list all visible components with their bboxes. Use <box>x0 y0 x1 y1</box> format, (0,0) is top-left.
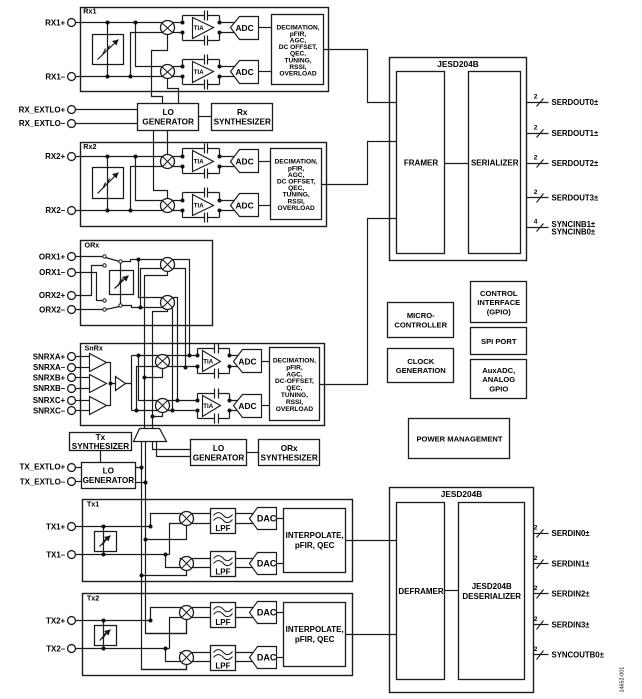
svg-text:OVERLOAD: OVERLOAD <box>276 406 314 413</box>
svg-text:2: 2 <box>534 524 538 531</box>
wire Rx1 Q TIA to ADC <box>220 67 236 77</box>
switch arm ORx upper <box>106 258 120 262</box>
wire SnRx Q ADC to decimation <box>262 405 270 407</box>
junction dots Tx1 <box>102 525 168 578</box>
svg-text:SYNCOUTB0±: SYNCOUTB0± <box>552 651 605 660</box>
amplifier SnRxB <box>90 375 107 393</box>
svg-text:DAC: DAC <box>257 608 277 618</box>
svg-text:SERDOUT1±: SERDOUT1± <box>552 129 599 138</box>
svg-text:FRAMER: FRAMER <box>404 159 438 168</box>
input SERDIN3 <box>534 616 591 630</box>
attenuator Rx2 <box>93 168 124 199</box>
svg-text:DESERIALIZER: DESERIALIZER <box>462 592 521 601</box>
svg-text:Tx: Tx <box>96 433 106 442</box>
mixer ORx Q <box>161 296 175 310</box>
wire ORx I mixer LO rail A <box>145 272 168 429</box>
deserializer block <box>459 503 525 680</box>
wire Rx1 attenuator shunt <box>107 23 109 77</box>
pin RX1+ <box>68 19 76 27</box>
serializer block <box>469 72 521 254</box>
wire Tx2 interpolate to deframer <box>346 634 397 636</box>
attenuator Tx2 <box>95 626 117 646</box>
pin SNRXA+ <box>68 353 76 361</box>
svg-text:ORX2+: ORX2+ <box>39 291 66 300</box>
pin Tx1- <box>68 551 76 559</box>
svg-text:TX_EXTLO–: TX_EXTLO– <box>20 477 66 486</box>
wire Tx2 I DAC to interpolate <box>277 612 284 614</box>
pin SNRXC- <box>68 407 76 415</box>
decimation block Rx1 <box>272 15 324 85</box>
svg-text:CONTROLLER: CONTROLLER <box>394 320 447 329</box>
LO distribution splitter funnel <box>134 429 167 442</box>
low-pass filter Tx1 Q <box>211 552 236 577</box>
svg-text:RX_EXTLO+: RX_EXTLO+ <box>19 105 66 114</box>
svg-text:ADC: ADC <box>235 67 253 77</box>
pin SNRXB+ <box>68 374 76 382</box>
mixer Rx1 I <box>161 21 175 35</box>
wire Tx1 Q mixer LO drop <box>142 571 187 576</box>
svg-text:TIA: TIA <box>203 403 213 410</box>
wire ORX1+ to switch <box>76 256 103 258</box>
wire RX2- input line <box>76 210 183 212</box>
wire Tx1 Q DAC to interpolate <box>277 563 284 565</box>
clock generation block <box>388 349 454 383</box>
svg-text:ANALOG: ANALOG <box>482 375 515 384</box>
wire Tx LO rail C <box>142 442 187 670</box>
svg-text:ORX2–: ORX2– <box>39 306 66 315</box>
wire SNRXA- input <box>76 367 91 369</box>
wire Tx1 interpolate to deframer <box>346 540 397 542</box>
svg-text:Rx2: Rx2 <box>83 142 96 151</box>
pin Tx2- <box>68 645 76 653</box>
wire ORx plus line to I mixer and down to SnRx TIA1 <box>123 260 190 356</box>
pin Tx2+ <box>68 617 76 625</box>
wire ORx attenuator shunt <box>120 264 122 304</box>
decimation block SnRx <box>270 348 320 421</box>
pin ORX1- <box>68 269 76 277</box>
input SERDIN2 <box>534 585 591 599</box>
wire Rx2 Q TIA to ADC <box>220 201 236 211</box>
wire Tx2 attenuator shunt <box>103 621 105 649</box>
svg-text:INTERPOLATE,: INTERPOLATE, <box>286 531 344 540</box>
wire SnRx minus line to Q mixer <box>132 410 198 412</box>
wire Rx1 decimation to framer <box>324 50 397 103</box>
wire Tx LO rail D <box>146 442 187 634</box>
svg-text:DAC: DAC <box>257 514 277 524</box>
low-pass filter Tx2 Q <box>211 646 236 671</box>
svg-text:SYNTHESIZER: SYNTHESIZER <box>260 454 317 463</box>
svg-text:LO: LO <box>103 467 115 476</box>
svg-text:Tx2: Tx2 <box>87 593 99 602</box>
svg-text:ADC: ADC <box>235 201 253 211</box>
TIA amplifier with feedback capacitors Rx1 I <box>181 11 222 46</box>
wire Rx LO generator to Rx synthesizer <box>199 116 212 118</box>
wire TX_EXTLO- input <box>76 481 82 483</box>
Tx synthesizer <box>70 433 132 452</box>
wire ORx cross to I mixer bottom <box>141 269 186 368</box>
pin ORX2+ <box>68 292 76 300</box>
ADC Rx1 I <box>231 17 259 40</box>
block Tx1 outline <box>83 500 353 582</box>
svg-text:SPI PORT: SPI PORT <box>481 337 517 346</box>
svg-text:SERDIN0±: SERDIN0± <box>552 529 591 538</box>
switch common node ORx minus <box>119 304 122 307</box>
wire Tx2 I mixer upper path <box>151 608 211 621</box>
wire Tx2 I mixer LO drop <box>146 620 187 634</box>
wire Tx2- output line <box>76 648 170 650</box>
wire Tx1 attenuator shunt <box>103 527 105 555</box>
svg-text:SERDIN3±: SERDIN3± <box>552 621 591 630</box>
wire Tx1 I mixer upper path <box>151 514 211 527</box>
svg-text:RX2+: RX2+ <box>45 152 65 161</box>
block Rx2 outline <box>81 143 327 227</box>
amplifier SnRxC <box>90 397 107 415</box>
wire ORx Q mixer LO rail B <box>153 310 168 429</box>
block SnRx outline <box>81 344 325 426</box>
wire SnRx amp bus <box>107 363 116 406</box>
TIA amplifier with feedback capacitors Rx1 Q <box>181 55 222 90</box>
TIA amplifier with feedback capacitors SnRx Q <box>196 389 232 424</box>
wire Tx2 Q mixer LO drop <box>142 665 187 670</box>
LO generator Rx <box>138 104 199 131</box>
svg-text:SnRx: SnRx <box>85 343 103 352</box>
svg-text:2: 2 <box>534 585 538 592</box>
ADC SnRx Q <box>234 395 262 418</box>
wire ORx LO generator to ORx synthesizer <box>247 452 259 454</box>
pin ORX1+ <box>68 253 76 261</box>
SPI port block <box>471 328 527 355</box>
wire RX_EXTLO+ input <box>76 109 138 111</box>
svg-text:SYNTHESIZER: SYNTHESIZER <box>72 442 129 451</box>
svg-text:RX1+: RX1+ <box>45 19 65 28</box>
TIA amplifier with feedback capacitors Rx2 Q <box>181 188 222 223</box>
svg-text:ADC: ADC <box>235 23 253 33</box>
svg-text:Rx1: Rx1 <box>83 7 96 16</box>
svg-text:ADC: ADC <box>238 356 256 366</box>
svg-text:INTERPOLATE,: INTERPOLATE, <box>286 625 344 634</box>
svg-text:TX2–: TX2– <box>46 644 66 653</box>
pin ORX2- <box>68 306 76 314</box>
wire SNRXB- input <box>76 388 91 390</box>
input SYNCINB <box>527 218 596 236</box>
Rx synthesizer <box>212 104 273 131</box>
LO generator Tx <box>82 463 136 489</box>
svg-text:2: 2 <box>534 555 538 562</box>
svg-text:SERDOUT0±: SERDOUT0± <box>552 98 599 107</box>
svg-text:2: 2 <box>534 646 538 653</box>
wire Rx1 Q mixer LO <box>168 79 179 104</box>
svg-text:2: 2 <box>534 93 538 100</box>
wire Tx1 I mixer LO drop <box>146 526 187 540</box>
wire Tx2 I mixer lower path <box>170 618 211 649</box>
wire Rx1 Q ADC to decimation <box>259 71 272 73</box>
wire SnRx decimation to framer <box>320 219 397 385</box>
switch arm ORx lower <box>106 307 120 310</box>
junction dots SnRx split <box>135 354 141 413</box>
wire SnRx Q mixer LO tap <box>153 413 163 417</box>
wire ORX2+ to switch <box>76 266 103 296</box>
control interface GPIO block <box>471 282 527 323</box>
svg-text:2: 2 <box>534 154 538 161</box>
svg-text:(GPIO): (GPIO) <box>487 308 512 317</box>
low-pass filter Tx2 I <box>211 603 236 628</box>
wire SnRx I ADC to decimation <box>262 361 270 363</box>
svg-text:2: 2 <box>534 616 538 623</box>
svg-text:TIA: TIA <box>194 69 204 76</box>
wire Tx2+ output line <box>76 620 151 622</box>
svg-text:POWER MANAGEMENT: POWER MANAGEMENT <box>416 435 502 444</box>
DAC Tx2 I <box>250 602 277 624</box>
wire Tx2 Q mixer upper path <box>166 649 211 662</box>
pin RX2- <box>68 207 76 215</box>
junction dots Tx2 <box>102 619 168 651</box>
pin RX_EXTLO+ <box>68 106 76 114</box>
switch common node ORx plus <box>119 260 122 263</box>
deframer block <box>397 503 445 680</box>
svg-text:TIA: TIA <box>194 203 204 210</box>
mixer Tx1 Q <box>180 557 194 571</box>
mixer Tx2 Q <box>180 651 194 665</box>
svg-text:SERIALIZER: SERIALIZER <box>471 159 519 168</box>
wire Rx2 I TIA to ADC <box>220 157 236 167</box>
wire Tx1- output line <box>76 554 170 556</box>
mixer Rx1 Q <box>161 65 175 79</box>
wire Tx synthesizer to Tx LO generator <box>100 451 102 463</box>
amplifier SnRxA <box>90 354 107 372</box>
wire Tx2 Q mixer lower line <box>180 652 211 654</box>
wire SnRx combiner split <box>126 356 132 411</box>
svg-text:GENERATION: GENERATION <box>396 366 446 375</box>
switch contact ORX2+ pole <box>103 264 106 267</box>
svg-text:INTERFACE: INTERFACE <box>477 298 520 307</box>
ORx synthesizer <box>259 440 320 466</box>
wire Tx1 I LPF to DAC <box>236 514 254 524</box>
wire ORX1- to switch <box>76 273 103 301</box>
wire TX_EXTLO+ input <box>76 467 82 469</box>
svg-text:2: 2 <box>534 189 538 196</box>
wire Rx2 decimation to framer <box>322 142 397 185</box>
wire RX1- input line <box>76 76 183 78</box>
svg-text:GPIO: GPIO <box>489 385 508 394</box>
svg-text:LPF: LPF <box>215 524 230 533</box>
ADC SnRx I <box>234 350 262 373</box>
svg-text:LPF: LPF <box>215 662 230 671</box>
pin RX_EXTLO- <box>68 120 76 128</box>
wire framer to serializer <box>445 163 469 165</box>
attenuator Tx1 <box>95 532 117 552</box>
LO generator ORx <box>191 440 247 466</box>
mixer SnRx Q <box>156 399 170 413</box>
svg-text:ADC: ADC <box>238 401 256 411</box>
wire Tx1 I mixer lower path <box>170 524 211 555</box>
svg-text:pFIR, QEC: pFIR, QEC <box>295 541 335 550</box>
wire SnRx Q TIA to ADC <box>230 401 239 411</box>
TIA amplifier with feedback capacitors SnRx I <box>196 344 232 379</box>
wire Rx2 I mixer LO <box>167 131 169 155</box>
svg-text:DEFRAMER: DEFRAMER <box>398 587 444 596</box>
wire Rx2 attenuator shunt <box>107 157 109 211</box>
svg-text:DAC: DAC <box>257 653 277 663</box>
block Rx1 outline <box>81 8 329 92</box>
wire SNRXC+ input <box>76 400 91 402</box>
svg-text:SNRXA+: SNRXA+ <box>33 352 66 361</box>
mixer ORx I <box>161 258 175 272</box>
mixer Rx2 Q <box>161 199 175 213</box>
wire RX2+ input line <box>76 156 183 158</box>
pin SNRXA- <box>68 364 76 372</box>
wire SnRx I mixer LO tap <box>145 369 163 378</box>
framer block <box>397 72 445 254</box>
svg-text:LPF: LPF <box>215 618 230 627</box>
svg-text:RX1–: RX1– <box>45 73 65 82</box>
output SYNCOUTB0 <box>534 646 605 660</box>
svg-text:4: 4 <box>534 218 538 225</box>
junction dots Rx2 input network <box>106 155 138 213</box>
svg-text:TX2+: TX2+ <box>46 616 66 625</box>
wire Tx1+ output line <box>76 526 151 528</box>
junction dots Rx1 input network <box>106 21 138 79</box>
svg-text:GENERATOR: GENERATOR <box>83 476 135 485</box>
junction dots Tx LO generator taps <box>140 466 148 485</box>
micro-controller block <box>388 303 454 338</box>
svg-text:LPF: LPF <box>215 568 230 577</box>
mixer Tx1 I <box>180 512 194 526</box>
svg-text:SERDOUT2±: SERDOUT2± <box>552 159 599 168</box>
pin TX_EXTLO+ <box>68 464 76 472</box>
pin TX_EXTLO- <box>68 478 76 486</box>
svg-text:SNRXC+: SNRXC+ <box>33 396 66 405</box>
wire Tx2 Q DAC to interpolate <box>277 657 284 659</box>
wire SnRx I TIA to ADC <box>230 356 239 367</box>
output SERDOUT1 <box>527 124 599 138</box>
attenuator Rx1 <box>93 35 124 65</box>
pin Tx1+ <box>68 523 76 531</box>
interpolate block Tx1 <box>284 509 346 573</box>
pin RX1- <box>68 73 76 81</box>
block JESD204B Rx outline <box>390 58 527 261</box>
block Tx2 outline <box>83 594 353 676</box>
pin SNRXB- <box>68 385 76 393</box>
pin RX2+ <box>68 153 76 161</box>
svg-text:ORx: ORx <box>281 444 298 453</box>
wire Tx LO generator tap to rail D <box>136 482 146 484</box>
wire ORX2- to switch <box>76 309 103 311</box>
output SERDOUT3 <box>527 189 599 203</box>
svg-text:TIA: TIA <box>194 159 204 166</box>
wire deframer to deserializer <box>445 590 459 592</box>
svg-text:SYNTHESIZER: SYNTHESIZER <box>214 118 271 127</box>
ADC Rx2 Q <box>231 194 259 217</box>
svg-text:SYNCINB0±: SYNCINB0± <box>552 228 596 237</box>
svg-text:SNRXC–: SNRXC– <box>33 406 66 415</box>
svg-text:GENERATOR: GENERATOR <box>193 454 245 463</box>
wire Rx1 I TIA to ADC <box>220 23 236 33</box>
svg-text:DAC: DAC <box>257 559 277 569</box>
svg-text:OVERLOAD: OVERLOAD <box>277 205 315 212</box>
output SERDOUT0 <box>527 93 599 107</box>
switch contact ORX1- pole <box>103 299 106 302</box>
DAC Tx1 Q <box>250 553 277 575</box>
wire SnRx cross to I mixer bottom <box>137 367 198 411</box>
svg-text:TX1+: TX1+ <box>46 522 66 531</box>
svg-text:TIA: TIA <box>194 25 204 32</box>
svg-text:ORX1+: ORX1+ <box>39 253 66 262</box>
wire SNRXB+ input <box>76 377 91 379</box>
ADC Rx1 Q <box>231 61 259 84</box>
switch contact ORX1+ <box>103 255 106 258</box>
pin SNRXC+ <box>68 397 76 405</box>
wire Tx1 Q LPF to DAC <box>236 559 254 568</box>
svg-text:CLOCK: CLOCK <box>407 357 435 366</box>
svg-text:GENERATOR: GENERATOR <box>142 118 194 127</box>
DAC Tx1 I <box>250 508 277 530</box>
svg-text:SERDIN1±: SERDIN1± <box>552 560 591 569</box>
output SERDOUT2 <box>527 154 599 168</box>
svg-text:SNRXB+: SNRXB+ <box>33 374 66 383</box>
switch contact ORX2- <box>103 308 106 311</box>
input SERDIN1 <box>534 555 591 569</box>
svg-text:CONTROL: CONTROL <box>480 289 518 298</box>
AuxADC analog GPIO block <box>471 360 527 399</box>
wire ORx cross to Q mixer top <box>139 260 173 298</box>
svg-text:OVERLOAD: OVERLOAD <box>279 71 317 78</box>
junction dots SnRx LO taps <box>143 376 155 419</box>
wire funnel to ORx LO generator upper <box>153 442 191 450</box>
wire Rx1 cross to I mixer <box>131 33 183 77</box>
mixer Rx2 I <box>161 155 175 169</box>
wire Tx1 Q mixer upper path <box>166 555 211 568</box>
mixer SnRx I <box>156 355 170 369</box>
attenuator ORx <box>110 271 134 295</box>
svg-text:SERDIN2±: SERDIN2± <box>552 590 591 599</box>
junction dots ORx <box>137 258 143 310</box>
wire SNRXC- input <box>76 410 91 412</box>
TIA amplifier with feedback capacitors Rx2 I <box>181 144 222 179</box>
wire Tx LO generator tap to rail C <box>136 467 142 469</box>
svg-text:SNRXA–: SNRXA– <box>33 363 66 372</box>
svg-text:2: 2 <box>534 124 538 131</box>
block ORx outline <box>81 241 213 326</box>
svg-text:TX_EXTLO+: TX_EXTLO+ <box>20 463 66 472</box>
svg-text:JESD204B: JESD204B <box>472 582 512 591</box>
wire Rx1 I mixer LO <box>152 35 168 104</box>
svg-text:ORX1–: ORX1– <box>39 268 66 277</box>
low-pass filter Tx1 I <box>211 509 236 534</box>
svg-text:ADC: ADC <box>235 157 253 167</box>
svg-text:LO: LO <box>163 108 175 117</box>
block JESD204B Tx outline <box>390 488 534 693</box>
svg-text:AuxADC,: AuxADC, <box>482 366 515 375</box>
wire RX1+ input line <box>76 22 183 24</box>
wire Rx1 cross to Q mixer <box>136 23 183 67</box>
wire SNRXA+ input <box>76 356 91 358</box>
wire Tx1 I DAC to interpolate <box>277 518 284 520</box>
svg-text:SERDOUT3±: SERDOUT3± <box>552 194 599 203</box>
wire SnRx cross to Q mixer top <box>139 356 198 401</box>
DAC Tx2 Q <box>250 647 277 669</box>
wire Rx2 cross to I mixer <box>131 167 183 211</box>
svg-text:RX_EXTLO–: RX_EXTLO– <box>19 119 66 128</box>
svg-text:JESD204B: JESD204B <box>441 489 483 499</box>
svg-text:14652-001: 14652-001 <box>620 667 626 693</box>
wire Tx2 Q LPF to DAC <box>236 653 254 662</box>
input SERDIN0 <box>534 524 591 538</box>
wire Rx2 cross to Q mixer <box>136 157 183 201</box>
wire Rx2 I ADC to decimation <box>259 161 271 163</box>
ADC Rx2 I <box>231 150 259 173</box>
svg-text:TIA: TIA <box>203 358 213 365</box>
svg-text:JESD204B: JESD204B <box>437 59 479 69</box>
